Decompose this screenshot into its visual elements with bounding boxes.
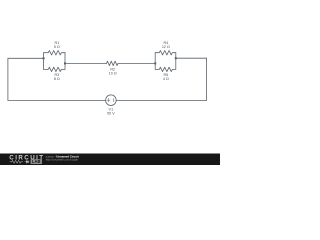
wire top-left horizontal: [8, 57, 44, 59]
logo diode arrow: [25, 160, 29, 163]
resistor R3: [44, 67, 65, 71]
V1 plus sign: [107, 98, 110, 101]
footer bar: [0, 154, 220, 166]
node junction right pair left: [154, 62, 156, 64]
logo resistor zigzag: [10, 160, 23, 163]
wire top-right horizontal: [176, 57, 207, 59]
svg-text:50 V: 50 V: [107, 111, 115, 115]
left pair right bar: [64, 53, 66, 70]
svg-text:http://circuitlab.com/c/gqkr: http://circuitlab.com/c/gqkr: [46, 158, 79, 162]
wire bottom-right horizontal: [116, 99, 206, 101]
wire left vertical: [7, 58, 9, 100]
resistor R5: [155, 67, 176, 71]
right pair left bar: [154, 53, 156, 70]
resistor R2: [107, 61, 119, 65]
resistor R4: [155, 51, 176, 55]
svg-text:5 Ω: 5 Ω: [54, 45, 60, 49]
logo LAB box: [31, 159, 43, 164]
V1 minus sign (vertical, rotated): [113, 99, 115, 102]
svg-text:12 Ω: 12 Ω: [162, 45, 170, 49]
wire middle left (left pair to R2): [65, 62, 107, 64]
wire right vertical: [206, 58, 208, 100]
resistor R1: [44, 51, 65, 55]
wire middle right (R2 to right pair): [118, 62, 155, 64]
svg-text:8 Ω: 8 Ω: [54, 77, 60, 81]
svg-text:10 Ω: 10 Ω: [109, 71, 117, 75]
node junction right pair right: [175, 57, 177, 59]
wire bottom-left horizontal: [8, 99, 106, 101]
left pair left bar: [43, 53, 45, 70]
right pair right bar: [175, 53, 177, 70]
svg-text:4 Ω: 4 Ω: [163, 77, 169, 81]
node junction left pair left: [43, 57, 45, 59]
node junction left pair right: [64, 62, 66, 64]
svg-text:LAB: LAB: [32, 159, 41, 164]
voltage source V1 circle: [106, 95, 117, 106]
